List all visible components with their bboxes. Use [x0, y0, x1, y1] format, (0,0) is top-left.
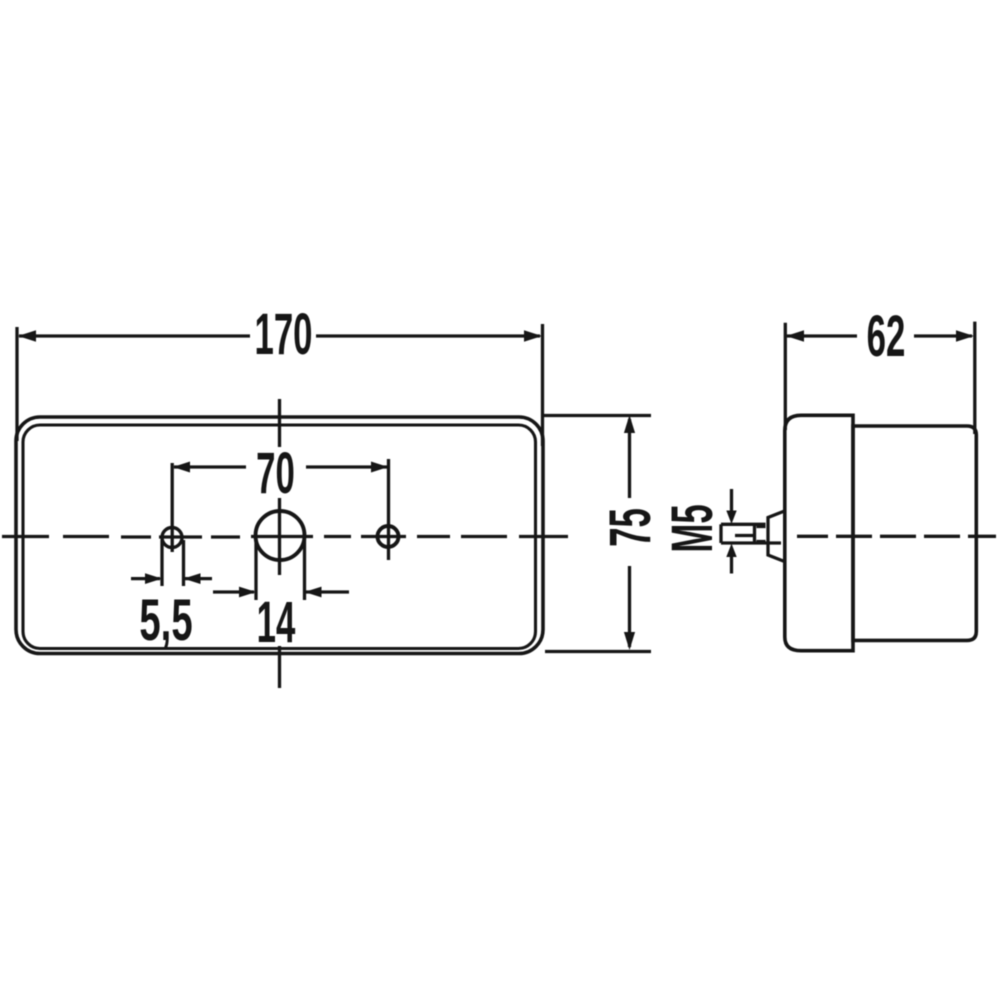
svg-text:75: 75 — [599, 508, 663, 547]
svg-text:170: 170 — [254, 303, 312, 367]
svg-text:14: 14 — [257, 591, 296, 655]
svg-text:M5: M5 — [661, 504, 725, 552]
svg-text:70: 70 — [256, 442, 295, 506]
svg-text:62: 62 — [867, 305, 906, 369]
svg-text:5,5: 5,5 — [139, 589, 192, 653]
